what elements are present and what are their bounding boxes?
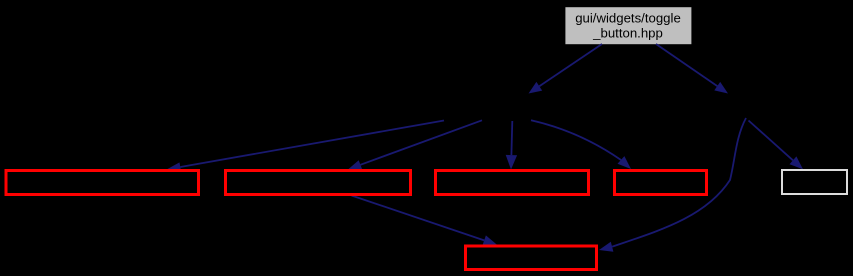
edge node A to box 4 [531, 120, 631, 169]
box 4 (red, truncated node) [615, 171, 707, 195]
edge node A to box 3 [506, 121, 517, 170]
box 3 (red, truncated node) [436, 171, 589, 195]
white box node [782, 170, 847, 194]
svg-text:_button.hpp: _button.hpp [592, 26, 663, 41]
edge node B to bottom box (curved) [599, 118, 746, 252]
box 2 (red, truncated node) [226, 171, 411, 195]
bottom box (red, truncated node) [466, 246, 597, 270]
edge node A to box 1 [167, 121, 444, 172]
edge node A to box 2 [348, 120, 482, 169]
edge node B to white box [749, 121, 804, 170]
box 1 (red, truncated node) [6, 171, 199, 195]
edge root to hidden node A [529, 44, 603, 94]
svg-text:gui/widgets/toggle: gui/widgets/toggle [575, 11, 681, 26]
edge box 2 to bottom box [352, 196, 498, 246]
node gui/widgets/toggle_button.hpp (root) [565, 7, 691, 44]
edge root to hidden node B [656, 44, 728, 94]
